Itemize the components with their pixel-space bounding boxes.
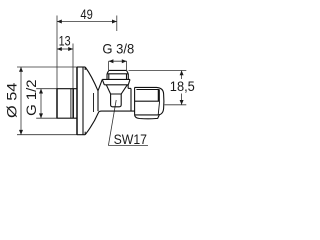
- svg-text:18,5: 18,5: [170, 79, 195, 94]
- svg-text:13: 13: [59, 33, 71, 48]
- svg-text:G 1/2: G 1/2: [24, 79, 39, 116]
- svg-text:G 3/8: G 3/8: [102, 42, 134, 57]
- svg-text:Ø 54: Ø 54: [5, 82, 20, 118]
- svg-text:49: 49: [80, 7, 93, 22]
- svg-text:SW17: SW17: [114, 132, 147, 147]
